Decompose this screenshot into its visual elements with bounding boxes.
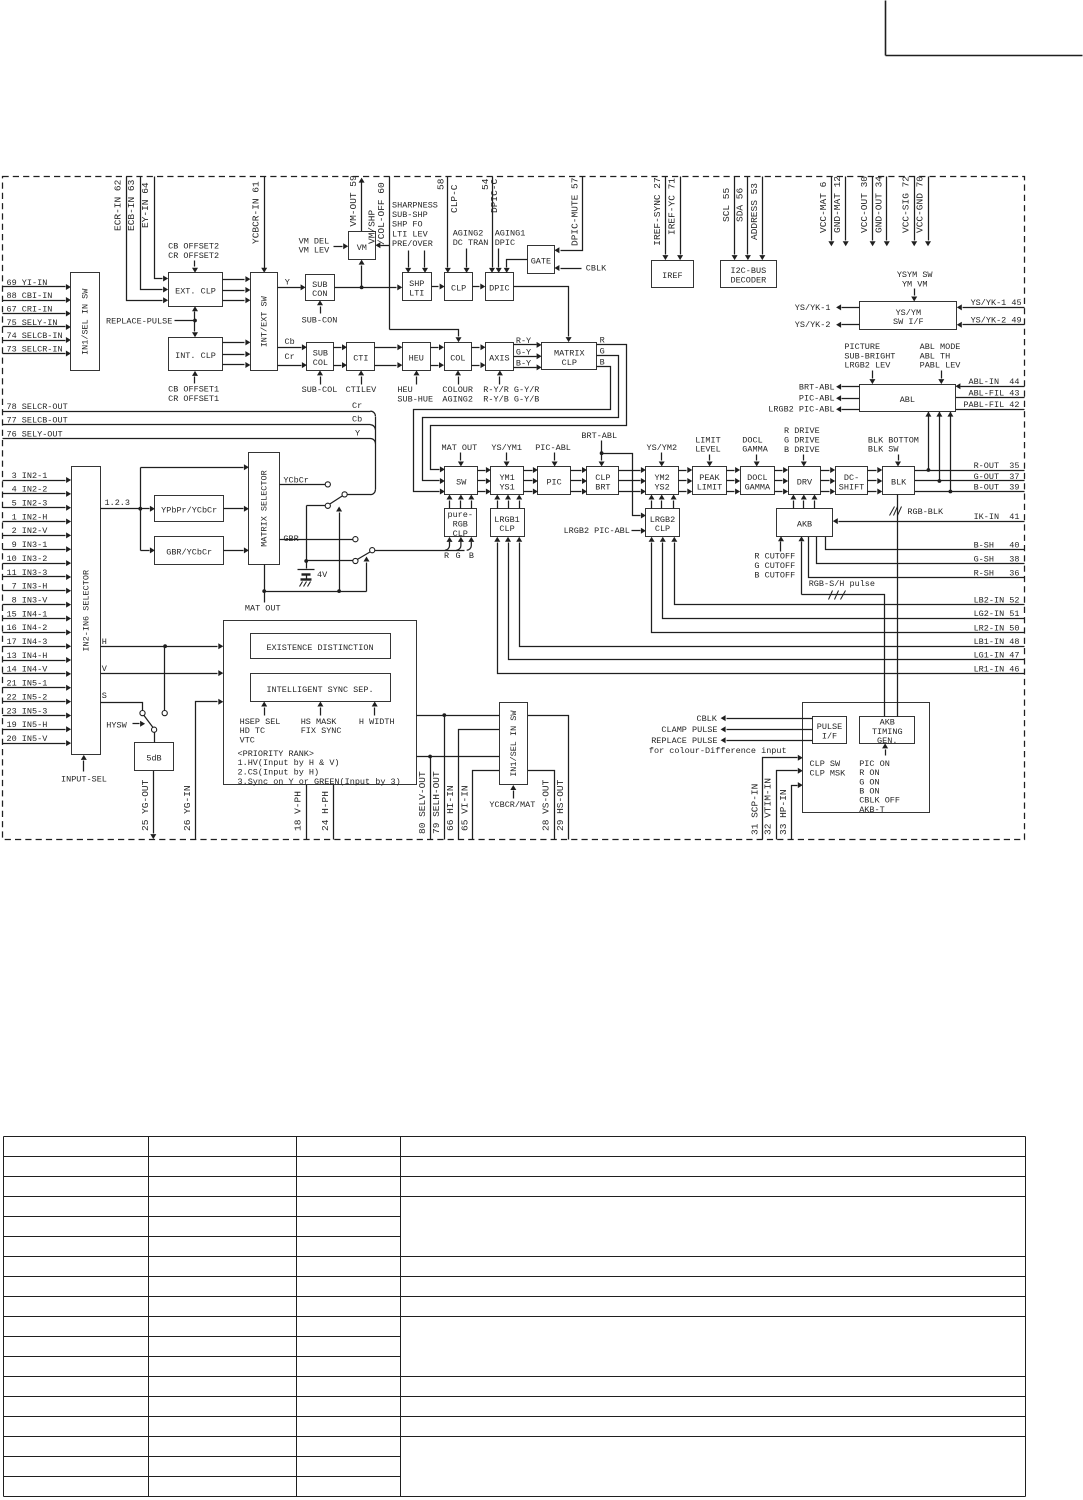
- block DC-SHIFT: [836, 467, 868, 495]
- wire GATE to DPIC: [504, 260, 528, 273]
- wire BLK bottom RGB-BLK to AKB timing: [890, 495, 945, 717]
- svg-text:31 SCP-IN: 31 SCP-IN: [749, 784, 760, 835]
- label HEU SUB-HUE: [397, 370, 433, 404]
- label R-Y/R G-Y/R R-Y/B G-Y/B: [483, 370, 539, 404]
- pin PABL-FIL 42: [956, 400, 1025, 410]
- svg-text:CLP SW: CLP SW: [810, 759, 842, 769]
- pin 26 YG-IN: [182, 699, 223, 840]
- label DOCL GAMMA: [742, 435, 768, 466]
- pin DPIC-C 54: [480, 177, 500, 273]
- wire CLP BRT to YM2 YS2: [619, 467, 646, 495]
- svg-text:INT. CLP: INT. CLP: [175, 351, 216, 361]
- pin DPIC-MUTE 57: [554, 177, 582, 254]
- svg-text:AKB-T: AKB-T: [859, 805, 885, 815]
- wire G-SH: [817, 537, 1025, 564]
- pin VCC-GND 70: [915, 176, 932, 247]
- svg-text:INPUT-SEL: INPUT-SEL: [61, 775, 107, 785]
- label CLP SW CLP MSK: [810, 759, 847, 779]
- svg-text:GND-OUT 34: GND-OUT 34: [873, 176, 884, 233]
- label INPUT-SEL: [61, 755, 107, 785]
- svg-text:ECR-IN 62: ECR-IN 62: [113, 179, 124, 231]
- svg-text:88 CBI-IN: 88 CBI-IN: [7, 291, 53, 301]
- svg-text:LRGB2 PIC-ABL: LRGB2 PIC-ABL: [768, 405, 834, 415]
- label ABL MODE ABL TH PABL LEV: [920, 342, 962, 384]
- wire BRT-ABL out of ABL: [799, 382, 860, 392]
- block CLP: [445, 273, 473, 301]
- switch control arrow 1: [336, 507, 342, 592]
- pin YCBCR-IN 61: [251, 177, 268, 273]
- svg-text:YS/YK-1: YS/YK-1: [795, 303, 831, 313]
- svg-text:VM LEV: VM LEV: [299, 246, 331, 256]
- svg-text:YS/YM1: YS/YM1: [491, 443, 522, 453]
- switch YCbCr select: [307, 482, 348, 561]
- label CB OFFSET1 CR OFFSET1: [168, 371, 219, 404]
- svg-text:B-OUT 39: B-OUT 39: [974, 482, 1020, 492]
- svg-text:BRT-ABL: BRT-ABL: [799, 382, 835, 392]
- svg-text:VCC-GND 70: VCC-GND 70: [915, 176, 926, 233]
- wire H output: [101, 637, 224, 649]
- wire selector bus 1.2.3: [101, 464, 249, 553]
- svg-text:YS/YK-2: YS/YK-2: [795, 320, 831, 330]
- svg-text:VCC-SIG 72: VCC-SIG 72: [901, 176, 912, 233]
- block LRGB2 CLP: [646, 509, 680, 537]
- svg-text:4V: 4V: [317, 570, 328, 580]
- pin 75 SELY-IN: [3, 318, 71, 330]
- svg-text:14 IN4-V: 14 IN4-V: [7, 665, 49, 675]
- wire sync V to IN1/SEL and pin 80: [417, 755, 500, 759]
- svg-text:VCC-MAT 6: VCC-MAT 6: [818, 181, 829, 233]
- svg-text:DC TRAN: DC TRAN: [453, 238, 489, 248]
- block IREF: [652, 261, 694, 288]
- block sync separator outline: [224, 621, 417, 785]
- wire AXIS to MATRIX CLP (R-Y G-Y B-Y): [514, 336, 542, 370]
- svg-text:5 IN2-3: 5 IN2-3: [7, 499, 48, 509]
- svg-text:21 IN5-1: 21 IN5-1: [7, 679, 48, 689]
- pin 32 VTIM-IN: [763, 768, 803, 840]
- wire B-SH: [826, 537, 1025, 550]
- wire REPLACE PULSE output: [649, 736, 813, 756]
- label COLOUR AGING2: [442, 370, 473, 404]
- block GBR/YCbCr: [155, 537, 224, 565]
- pin 4 IN2-2: [3, 485, 72, 497]
- wire YM1 YS1 to PIC: [524, 467, 538, 495]
- svg-text:ADDRESS 53: ADDRESS 53: [749, 183, 760, 240]
- wire DC-SHIFT to BLK: [868, 467, 883, 495]
- pin LR1-IN 46 label: [974, 664, 1020, 674]
- svg-text:78 SELCR-OUT: 78 SELCR-OUT: [7, 402, 68, 412]
- pin SCL 55: [721, 177, 738, 261]
- wire DRV to DC-SHIFT: [821, 467, 836, 495]
- wire COL to AXIS: [472, 344, 486, 368]
- wire CBLK into GATE: [554, 264, 607, 274]
- svg-text:SCL 55: SCL 55: [721, 187, 732, 222]
- block SUB CON: [306, 275, 335, 301]
- label VM/SHP /COL-OFF 60: [367, 182, 387, 245]
- wire REPLACE-PULSE: [106, 306, 198, 337]
- svg-text:YS/YK-2 49: YS/YK-2 49: [971, 316, 1022, 326]
- block IN2-IN6 SELECTOR: [72, 467, 101, 755]
- svg-text:SUB-HUE: SUB-HUE: [397, 395, 433, 405]
- svg-text:R-Y/B G-Y/B: R-Y/B G-Y/B: [483, 395, 539, 405]
- wire MATRIX SELECTOR GBR output: [280, 534, 353, 544]
- block PIC: [538, 467, 571, 495]
- pin 77 SELCB-OUT: [3, 415, 376, 430]
- svg-text:GATE: GATE: [531, 257, 551, 267]
- svg-text:SHP FO: SHP FO: [392, 220, 423, 230]
- svg-text:22 IN5-2: 22 IN5-2: [7, 692, 48, 702]
- svg-text:77 SELCB-OUT: 77 SELCB-OUT: [7, 416, 68, 426]
- svg-text:13 IN4-H: 13 IN4-H: [7, 651, 48, 661]
- svg-text:ABL: ABL: [900, 395, 915, 405]
- block YM1 YS1: [491, 467, 524, 495]
- svg-text:LTI LEV: LTI LEV: [392, 229, 429, 239]
- svg-text:YPbPr/YCbCr: YPbPr/YCbCr: [161, 505, 217, 515]
- svg-text:BRT-ABL: BRT-ABL: [581, 431, 617, 441]
- pin LB2-IN 52 label: [974, 595, 1020, 605]
- pin 20 IN5-V: [3, 734, 72, 746]
- wire PIC-ABL out of ABL: [799, 394, 860, 404]
- wire CTI to HEU: [375, 344, 403, 368]
- wire pure-RGB CLP to SW: [447, 495, 475, 509]
- svg-text:COL: COL: [450, 353, 465, 363]
- block VM: [349, 232, 376, 260]
- svg-text:33 HP-IN: 33 HP-IN: [778, 789, 789, 835]
- pin 74 SELCB-IN: [3, 331, 71, 343]
- svg-text:CLP-C: CLP-C: [449, 184, 460, 213]
- svg-text:EXISTENCE DISTINCTION: EXISTENCE DISTINCTION: [266, 643, 373, 653]
- svg-text:CBLK: CBLK: [586, 264, 607, 274]
- wire ABL feed verticals: [925, 412, 953, 492]
- svg-text:69 YI-IN: 69 YI-IN: [7, 278, 48, 288]
- svg-text:GEN.: GEN.: [877, 736, 897, 746]
- switch control arrow 2: [364, 557, 370, 592]
- wire DOCL GAMMA to DRV: [775, 467, 789, 495]
- label YS/YM2: [647, 443, 678, 466]
- wire SUB COL to CTI: [334, 344, 348, 368]
- pin 66 HI-IN: [445, 730, 499, 840]
- wire YS/YK-2 output: [795, 320, 860, 330]
- svg-text:ABL-FIL 43: ABL-FIL 43: [968, 388, 1019, 398]
- block LRGB1 CLP: [491, 509, 525, 537]
- svg-text:1 IN2-H: 1 IN2-H: [7, 512, 48, 522]
- svg-text:B CUTOFF: B CUTOFF: [754, 570, 795, 580]
- block INTELLIGENT SYNC SEP.: [251, 674, 391, 702]
- wire CLP to DPIC: [473, 284, 486, 290]
- pin 7 IN3-H: [3, 582, 72, 594]
- svg-text:INTELLIGENT SYNC SEP.: INTELLIGENT SYNC SEP.: [266, 685, 373, 695]
- wire AKB to DRV: [790, 495, 817, 509]
- svg-text:8 IN3-V: 8 IN3-V: [7, 595, 49, 605]
- svg-text:MAT OUT: MAT OUT: [442, 443, 478, 453]
- switch HYSW: [106, 711, 167, 743]
- wire YM2 YS2 to PEAK LIMIT: [679, 467, 693, 495]
- svg-text:AKB: AKB: [797, 520, 812, 530]
- svg-text:MATRIX SELECTOR: MATRIX SELECTOR: [260, 470, 270, 547]
- pin G-SH 38 label: [974, 555, 1020, 565]
- svg-text:LIMIT: LIMIT: [697, 482, 723, 492]
- svg-text:IREF-SYNC 27: IREF-SYNC 27: [652, 177, 663, 245]
- svg-text:PABL-FIL 42: PABL-FIL 42: [963, 400, 1019, 410]
- wire EXT.CLP outputs to INT/EXT SW: [223, 276, 251, 303]
- block IN1/SEL IN SW (input clamp switch): [71, 273, 100, 371]
- svg-text:IN2-IN6 SELECTOR: IN2-IN6 SELECTOR: [81, 570, 91, 652]
- wire GBR/YCbCr to MATRIX SELECTOR: [224, 547, 249, 553]
- svg-text:73 SELCR-IN: 73 SELCR-IN: [7, 344, 63, 354]
- block GATE: [528, 246, 555, 274]
- svg-text:DPIC-MUTE 57: DPIC-MUTE 57: [570, 178, 581, 246]
- block EXT. CLP: [169, 273, 223, 307]
- label R DRIVE G DRIVE B DRIVE: [784, 426, 820, 467]
- block YM2 YS2: [646, 467, 679, 495]
- svg-text:/COL-OFF 60: /COL-OFF 60: [376, 182, 387, 245]
- svg-text:SUB-COL: SUB-COL: [302, 385, 338, 395]
- svg-text:PIC-ABL: PIC-ABL: [535, 443, 571, 453]
- block HEU: [403, 343, 431, 371]
- wire G-OUT: [915, 479, 1025, 483]
- svg-text:SHIFT: SHIFT: [839, 482, 865, 492]
- svg-text:1.2.3: 1.2.3: [105, 498, 131, 508]
- svg-text:11 IN3-3: 11 IN3-3: [7, 568, 48, 578]
- svg-text:Y: Y: [355, 428, 360, 438]
- svg-text:IREF-YC 71: IREF-YC 71: [667, 178, 678, 235]
- svg-text:65 VI-IN: 65 VI-IN: [459, 785, 470, 831]
- svg-text:LR1-IN 46: LR1-IN 46: [974, 664, 1020, 674]
- pin 25 YG-OUT: [140, 771, 156, 840]
- wire MATRIX CLP G output loop to SW: [423, 346, 619, 484]
- wire MATRIX SELECTOR YCbCr output: [280, 476, 326, 486]
- svg-text:AGING2: AGING2: [442, 395, 473, 405]
- svg-text:BRT: BRT: [595, 482, 610, 492]
- pin 76 SELY-OUT: [3, 428, 376, 443]
- svg-text:DPIC: DPIC: [489, 284, 509, 294]
- label MAT OUT above SW: [442, 443, 478, 466]
- svg-text:CLP: CLP: [562, 358, 577, 368]
- svg-text:I/F: I/F: [822, 732, 837, 742]
- block YPbPr/YCbCr: [155, 496, 224, 522]
- svg-text:HYSW: HYSW: [106, 720, 127, 730]
- svg-text:CLAMP PULSE: CLAMP PULSE: [661, 725, 717, 735]
- wire YPbPr/YCbCr to MATRIX SELECTOR: [224, 506, 249, 512]
- svg-text:PRE/OVER: PRE/OVER: [392, 239, 433, 249]
- table grid: [4, 1137, 1026, 1497]
- svg-text:CLP: CLP: [655, 524, 670, 534]
- wire HEU to COL: [431, 344, 445, 368]
- wire LRGB2 PIC-ABL: [564, 526, 646, 536]
- svg-text:R: R: [444, 551, 449, 561]
- svg-text:RGB-S/H pulse: RGB-S/H pulse: [809, 579, 875, 589]
- pin 14 IN4-V: [3, 665, 72, 677]
- block DOCL GAMMA: [741, 467, 775, 495]
- wire SW to YM1 YS1: [478, 467, 491, 495]
- pin 9 IN3-1: [3, 540, 72, 552]
- svg-text:VTC: VTC: [240, 735, 255, 745]
- svg-text:EY-IN 64: EY-IN 64: [140, 182, 151, 228]
- wire LG1-IN: [505, 537, 1025, 660]
- wire LR1-IN: [494, 537, 1024, 674]
- svg-text:BLK: BLK: [891, 478, 907, 488]
- svg-text:5dB: 5dB: [146, 754, 161, 764]
- wire Y from INT/EXT SW to SUB CON: [278, 278, 306, 291]
- svg-text:Cr: Cr: [285, 352, 295, 362]
- battery 4V with ground: [298, 561, 329, 587]
- block SHP LTI: [403, 273, 432, 301]
- block SUB COL: [307, 343, 334, 371]
- svg-text:IN1/SEL IN SW: IN1/SEL IN SW: [81, 288, 91, 355]
- svg-text:CLP: CLP: [453, 529, 468, 539]
- svg-text:HEU: HEU: [409, 353, 424, 363]
- svg-text:74 SELCB-IN: 74 SELCB-IN: [7, 331, 63, 341]
- wire VM bottom feed: [359, 260, 365, 288]
- svg-text:4 IN2-2: 4 IN2-2: [7, 485, 48, 495]
- block SW: [445, 467, 478, 495]
- svg-text:IK-IN 41: IK-IN 41: [974, 512, 1020, 522]
- label YSYM SW YM VM: [897, 270, 934, 302]
- svg-text:29 HS-OUT: 29 HS-OUT: [555, 779, 566, 831]
- svg-text:CTILEV: CTILEV: [346, 385, 378, 395]
- pin ECR-IN 62: [113, 177, 168, 304]
- svg-text:AXIS: AXIS: [489, 353, 509, 363]
- label HSEP SEL HD TC VTC: [240, 702, 281, 746]
- wire R-OUT: [915, 468, 1025, 472]
- pin IREF-SYNC 27: [652, 177, 669, 261]
- pin ADDRESS 53: [749, 177, 766, 261]
- svg-text:CON: CON: [312, 289, 327, 299]
- svg-text:SUB-SHP: SUB-SHP: [392, 210, 428, 220]
- pin 80 SELV-OUT: [417, 757, 431, 840]
- svg-text:80 SELV-OUT: 80 SELV-OUT: [417, 771, 428, 834]
- pin ECB-IN 63: [126, 177, 168, 293]
- svg-text:17 IN4-3: 17 IN4-3: [7, 637, 48, 647]
- pin R-OUT 35 label: [974, 461, 1020, 471]
- svg-text:58: 58: [436, 178, 447, 190]
- svg-text:28 VS-OUT: 28 VS-OUT: [541, 779, 552, 831]
- wire BRT-ABL to CLP BRT and LRGB2 CLP: [581, 431, 646, 519]
- pin 65 VI-IN: [459, 771, 499, 840]
- svg-text:EXT. CLP: EXT. CLP: [175, 287, 216, 297]
- svg-text:R-OUT 35: R-OUT 35: [974, 461, 1020, 471]
- wire LG2-IN: [660, 537, 1025, 619]
- pin 29 HS-OUT: [528, 716, 569, 840]
- block 5dB attenuator: [135, 743, 174, 771]
- label YS/YM1: [491, 443, 522, 466]
- block EXISTENCE DISTINCTION: [251, 634, 391, 659]
- wire CLAMP PULSE output: [661, 725, 812, 735]
- svg-text:19 IN5-H: 19 IN5-H: [7, 720, 48, 730]
- svg-text:IN1/SEL IN SW: IN1/SEL IN SW: [509, 710, 519, 777]
- svg-text:DPIC: DPIC: [495, 238, 515, 248]
- svg-text:76 SELY-OUT: 76 SELY-OUT: [7, 429, 63, 439]
- pin 23 IN5-3: [3, 706, 72, 718]
- wire YS/YK-1 output: [795, 303, 860, 313]
- label VM DEL VM LEV: [299, 236, 349, 255]
- label SUB-COL CTILEV: [302, 370, 378, 395]
- pin VCC-MAT 6: [818, 177, 835, 247]
- svg-text:YS/YK-1 45: YS/YK-1 45: [971, 298, 1022, 308]
- label AGING1 DPIC: [495, 229, 526, 273]
- pin 5 IN2-3: [3, 499, 72, 511]
- wire LRGB1 CLP to YM1 YS1: [494, 495, 522, 509]
- svg-text:H: H: [102, 637, 107, 647]
- pin 28 VS-OUT: [528, 771, 555, 840]
- label SHARPNESS SUB-SHP SHP FO LTI LEV PRE/OVER: [392, 201, 438, 273]
- svg-text:SW: SW: [456, 478, 467, 488]
- svg-text:DECODER: DECODER: [730, 276, 766, 286]
- pin 11 IN3-3: [3, 568, 72, 580]
- svg-text:CLP: CLP: [499, 524, 514, 534]
- svg-text:PIC-ABL: PIC-ABL: [799, 394, 835, 404]
- pin 15 IN4-1: [3, 609, 72, 621]
- svg-text:S: S: [102, 691, 107, 701]
- svg-text:PIC: PIC: [546, 478, 561, 488]
- svg-text:BLK SW: BLK SW: [868, 445, 900, 455]
- pin YS/YK-2 49: [957, 316, 1025, 328]
- svg-text:REPLACE PULSE: REPLACE PULSE: [651, 736, 717, 746]
- block COL: [445, 343, 472, 371]
- pin B-OUT 39 label: [974, 482, 1020, 492]
- svg-text:YM VM: YM VM: [902, 279, 928, 289]
- label HS MASK FIX SYNC: [301, 702, 342, 737]
- block DPIC: [486, 273, 514, 301]
- svg-text:2 IN2-V: 2 IN2-V: [7, 526, 49, 536]
- pin 33 HP-IN: [778, 782, 803, 839]
- block CTI: [347, 343, 375, 371]
- page corner frame: [886, 1, 1083, 56]
- wire R-SH: [809, 537, 1025, 578]
- IC boundary (dashed): [3, 177, 1025, 840]
- svg-text:Cr: Cr: [352, 401, 362, 411]
- pin 67 CRI-IN: [3, 304, 71, 316]
- label PIC ON R ON G ON B ON CBLK OFF AKB-T: [859, 743, 900, 815]
- svg-text:7 IN3-H: 7 IN3-H: [7, 582, 48, 592]
- svg-text:Cb: Cb: [285, 337, 295, 347]
- pin GND-MAT 12: [832, 176, 849, 247]
- pin EY-IN 64: [140, 177, 168, 282]
- label CB OFFSET2 CR OFFSET2: [168, 242, 219, 273]
- pin VM/SHP /COL-OFF 60: [375, 177, 461, 343]
- svg-text:YCBCR-IN 61: YCBCR-IN 61: [251, 181, 262, 244]
- pin VCC-OUT 30: [859, 176, 876, 247]
- label BLK BOTTOM BLK SW: [868, 435, 919, 466]
- svg-text:CTI: CTI: [353, 353, 368, 363]
- pin R-SH 36 label: [974, 568, 1020, 578]
- pin 79 SELH-OUT: [431, 716, 445, 840]
- svg-text:CR OFFSET2: CR OFFSET2: [168, 251, 219, 261]
- pin VM-OUT 59: [348, 175, 365, 232]
- svg-text:VM: VM: [357, 243, 367, 253]
- block MATRIX CLP: [542, 343, 597, 370]
- svg-text:26 YG-IN: 26 YG-IN: [182, 785, 193, 831]
- svg-text:YS2: YS2: [654, 482, 669, 492]
- block AXIS: [486, 343, 514, 371]
- block PULSE I/F: [813, 717, 847, 744]
- svg-text:GBR/YCbCr: GBR/YCbCr: [166, 547, 212, 557]
- svg-text:LTI: LTI: [409, 288, 424, 298]
- block YS/YM SW I/F: [860, 302, 957, 330]
- svg-text:MAT OUT: MAT OUT: [245, 603, 281, 613]
- svg-text:SDA 56: SDA 56: [734, 187, 745, 222]
- block CLP BRT: [587, 467, 619, 495]
- wire RGB-S/H pulse: [799, 536, 885, 716]
- svg-text:Y: Y: [285, 278, 290, 288]
- block AKB pulse section outline: [803, 703, 930, 813]
- pin 3 IN2-1: [3, 471, 72, 483]
- pin 24 H-PH: [320, 785, 334, 840]
- wire LRGB2 CLP to YM2 YS2: [649, 495, 677, 509]
- svg-text:DRV: DRV: [797, 478, 813, 488]
- svg-text:G: G: [456, 551, 461, 561]
- svg-text:3 IN2-1: 3 IN2-1: [7, 471, 48, 481]
- svg-text:67 CRI-IN: 67 CRI-IN: [7, 304, 53, 314]
